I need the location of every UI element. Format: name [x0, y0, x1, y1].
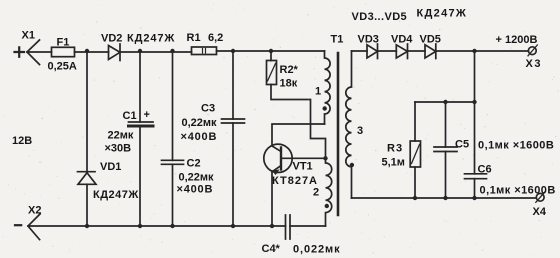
- svg-text:22мк: 22мк: [108, 130, 134, 142]
- svg-text:0,1мк ×1600В: 0,1мк ×1600В: [480, 185, 556, 197]
- svg-text:×30В: ×30В: [105, 143, 132, 155]
- svg-text:R2*: R2*: [280, 64, 299, 76]
- svg-text:VD4: VD4: [391, 34, 413, 46]
- svg-text:2: 2: [313, 187, 319, 199]
- svg-text:C5: C5: [455, 139, 469, 151]
- svg-text:3: 3: [357, 125, 363, 137]
- svg-text:КД247Ж: КД247Ж: [417, 8, 468, 20]
- svg-text:X4: X4: [533, 206, 547, 218]
- svg-text:C6: C6: [478, 164, 492, 176]
- svg-text:C2: C2: [187, 158, 201, 170]
- svg-text:КД247Ж: КД247Ж: [93, 189, 139, 201]
- svg-text:+: +: [144, 109, 150, 121]
- svg-text:КД247Ж: КД247Ж: [127, 33, 175, 45]
- svg-text:C3: C3: [201, 103, 215, 115]
- svg-text:C4*: C4*: [262, 243, 281, 255]
- svg-text:R3: R3: [387, 143, 403, 155]
- svg-text:VD5: VD5: [420, 34, 441, 46]
- svg-text:6,2: 6,2: [208, 32, 223, 44]
- svg-text:18к: 18к: [280, 78, 298, 90]
- svg-text:×400В: ×400В: [177, 184, 214, 196]
- svg-text:VD2: VD2: [101, 33, 122, 45]
- svg-text:X3: X3: [526, 58, 542, 70]
- svg-text:R1: R1: [187, 32, 201, 44]
- svg-text:VD3: VD3: [358, 34, 379, 46]
- svg-text:VT1: VT1: [293, 161, 313, 173]
- svg-text:5,1м: 5,1м: [382, 157, 405, 169]
- svg-text:VD1: VD1: [100, 161, 121, 173]
- svg-text:X2: X2: [28, 205, 41, 217]
- svg-text:1: 1: [315, 86, 321, 98]
- svg-text:КТ827А: КТ827А: [272, 175, 318, 187]
- svg-text:VD3...VD5: VD3...VD5: [352, 11, 408, 23]
- svg-text:+ 1200В: + 1200В: [496, 34, 538, 46]
- svg-text:0,25А: 0,25А: [48, 61, 77, 73]
- svg-text:0,1мк ×1600В: 0,1мк ×1600В: [478, 140, 554, 152]
- svg-text:0,22мк: 0,22мк: [182, 117, 218, 129]
- svg-text:X1: X1: [22, 30, 35, 42]
- svg-text:C1: C1: [123, 110, 137, 122]
- svg-text:0,22мк: 0,22мк: [179, 172, 215, 184]
- svg-text:12В: 12В: [12, 135, 32, 147]
- svg-text:F1: F1: [57, 37, 70, 49]
- svg-text:Т1: Т1: [331, 34, 344, 46]
- svg-text:×400В: ×400В: [181, 131, 218, 143]
